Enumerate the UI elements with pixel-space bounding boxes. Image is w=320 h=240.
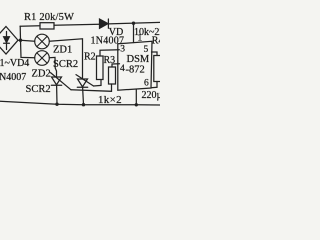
node A junction dot left bbox=[19, 39, 22, 42]
wire top rail right bbox=[108, 22, 160, 24]
node E junction dot pin 6 bbox=[135, 103, 138, 106]
wire pin 1 to top rail bbox=[133, 23, 135, 42]
wire SCR2 gate to R3 bbox=[71, 84, 112, 91]
bridge rectifier VD1~VD4 bbox=[0, 27, 18, 55]
svg-text:SCR2: SCR2 bbox=[26, 84, 51, 95]
diode VD bbox=[100, 19, 109, 28]
wire R3 top to pin 4 bbox=[112, 64, 120, 67]
svg-text:ZD1: ZD1 bbox=[53, 45, 72, 56]
svg-text:VD1~VD4: VD1~VD4 bbox=[0, 58, 29, 69]
lamp ZD2 bbox=[35, 51, 50, 66]
svg-text:1: 1 bbox=[138, 34, 143, 44]
wire pin 5 to R4 bbox=[152, 52, 158, 56]
svg-text:R4: R4 bbox=[152, 36, 160, 47]
resistor R3 bbox=[109, 67, 116, 84]
svg-text:R1 20k/5W: R1 20k/5W bbox=[24, 12, 74, 23]
svg-text:6: 6 bbox=[144, 79, 149, 89]
resistor R1 bbox=[40, 23, 54, 29]
svg-text:1N4007: 1N4007 bbox=[0, 72, 26, 83]
wire ZD1 to SCR1 anode bbox=[49, 39, 82, 79]
wire pin 6 to bottom rail bbox=[135, 90, 137, 105]
svg-text:SCR2: SCR2 bbox=[53, 59, 78, 70]
wire bottom rail bbox=[0, 101, 160, 105]
svg-text:ZD2: ZD2 bbox=[32, 69, 51, 80]
svg-text:R2: R2 bbox=[84, 52, 96, 63]
svg-text:4: 4 bbox=[120, 64, 125, 74]
svg-text:3: 3 bbox=[120, 45, 125, 55]
wire R4 bottom bbox=[151, 82, 157, 88]
resistor R4 bbox=[154, 56, 161, 82]
wire bridge to node bbox=[18, 39, 21, 41]
wire node down left bbox=[21, 40, 35, 58]
wire top rail mid bbox=[54, 24, 100, 25]
wire top rail left bbox=[20, 25, 40, 27]
lamp ZD1 bbox=[35, 34, 50, 49]
node D junction dot SCR1 cathode bbox=[82, 103, 85, 106]
wire left vertical from top rail bbox=[19, 26, 21, 40]
svg-text:-872: -872 bbox=[126, 64, 145, 75]
node C junction dot SCR2 cathode bbox=[55, 103, 58, 106]
bridge inner diode bbox=[4, 32, 10, 50]
IC U1 DSM-872 box bbox=[118, 41, 152, 90]
node B junction dot top rail bbox=[132, 22, 135, 25]
svg-text:1k×2: 1k×2 bbox=[98, 94, 122, 106]
svg-text:R3: R3 bbox=[104, 55, 116, 66]
wire SCR1 gate to R2 bbox=[94, 80, 102, 87]
wire R2 top to pin 3 bbox=[100, 50, 119, 56]
wire SCR2 cathode to bottom rail bbox=[56, 85, 58, 104]
wire ZD2 to SCR2 anode bbox=[49, 57, 56, 77]
background bbox=[0, 0, 160, 110]
thyristor SCR2 bbox=[51, 73, 72, 90]
svg-text:1N4007: 1N4007 bbox=[91, 36, 125, 47]
wire SCR1 cathode to bottom rail bbox=[82, 87, 85, 104]
wire node to ZD1 bbox=[21, 40, 35, 41]
resistor R2 bbox=[97, 56, 104, 80]
thyristor SCR1 bbox=[76, 75, 94, 88]
svg-text:220µ: 220µ bbox=[142, 90, 161, 101]
